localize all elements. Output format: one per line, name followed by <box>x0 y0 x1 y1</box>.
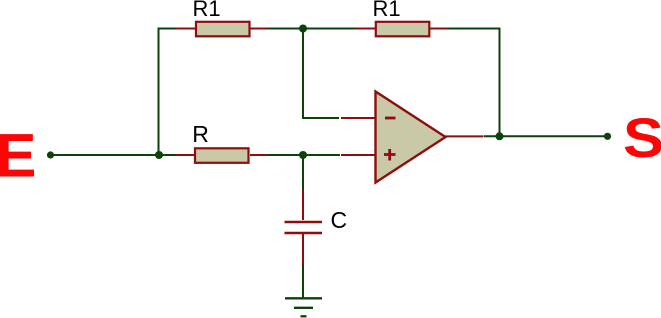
wire capacitor to ground <box>302 265 304 299</box>
junction node left <box>155 151 163 159</box>
svg-text:R: R <box>192 121 209 147</box>
junction node non-inverting <box>299 151 307 159</box>
op-amp minus symbol <box>385 117 396 120</box>
wire node to capacitor <box>302 155 304 191</box>
wire E input horizontal <box>51 154 178 156</box>
svg-text:C: C <box>331 207 348 233</box>
pin lead capacitor top <box>302 190 304 220</box>
resistor R1 (right) body <box>376 22 430 37</box>
pin lead op-amp output <box>445 135 484 137</box>
terminal dot S <box>604 133 611 140</box>
pin lead op-amp inverting input <box>341 117 375 119</box>
wire output to terminal S <box>484 135 608 137</box>
capacitor C plates <box>285 222 323 233</box>
wire inverting input vertical and horizontal <box>303 29 339 119</box>
ground symbol <box>285 297 322 299</box>
resistor R1 (left) body <box>196 22 250 37</box>
svg-text:R1: R1 <box>193 0 221 21</box>
pin lead op-amp non-inverting input <box>341 154 375 156</box>
wire non-inverting input <box>268 154 341 156</box>
junction node output <box>496 132 504 140</box>
svg-text:R1: R1 <box>373 0 401 21</box>
op-amp U1 body <box>376 92 446 183</box>
junction node top <box>299 25 307 33</box>
wire left vertical feedback <box>159 29 178 156</box>
pin leads resistor R1 (left) <box>176 28 268 30</box>
pin leads resistor R1 (right) <box>356 28 447 30</box>
pin lead capacitor bottom <box>302 234 304 265</box>
pin leads resistor R <box>176 154 268 156</box>
op-amp plus symbol <box>384 149 396 161</box>
resistor R body <box>195 148 249 163</box>
wire top between R1a and R1b <box>268 28 358 30</box>
svg-text:S: S <box>623 106 661 169</box>
svg-text:E: E <box>0 121 36 189</box>
terminal dot E <box>47 151 54 158</box>
wire top right corner down to output node <box>447 29 500 137</box>
